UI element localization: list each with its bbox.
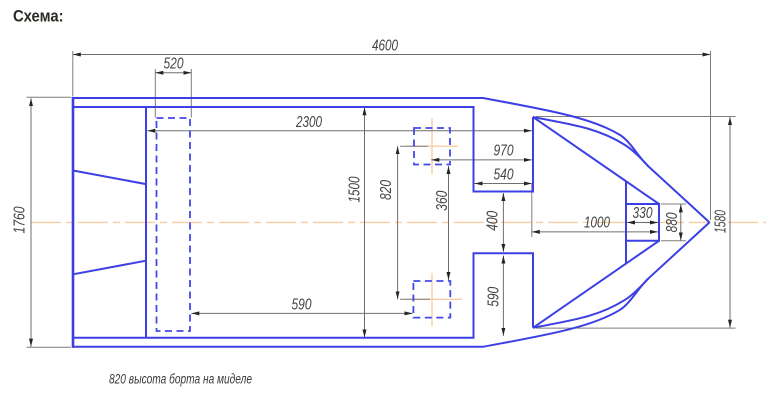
svg-text:540: 540 (494, 167, 514, 184)
fuel tank dashed rectangle (157, 118, 191, 331)
ext 1580 top (536, 116, 736, 118)
dimension extension lines (27, 51, 736, 347)
dim 590 horizontal line (191, 312, 412, 314)
transom diagonal lower (73, 261, 146, 275)
bow deck edge upper (533, 117, 659, 204)
dim 880 line (680, 204, 682, 240)
transom diagonal upper (73, 171, 146, 185)
dimension labels (12, 38, 730, 314)
svg-text:520: 520 (164, 56, 184, 73)
ext 1000 left (at bow notch wall) (531, 184, 533, 237)
dim 820 line (397, 146, 399, 299)
dim 400 line (502, 193, 504, 252)
ext 4600 right (710, 51, 712, 220)
hull outline (72, 97, 710, 348)
ext 880 top (661, 203, 686, 205)
dim 520 line (155, 72, 191, 74)
dim 4600 line (73, 54, 711, 56)
ext 1580 bottom (536, 327, 736, 329)
dashed structures (157, 118, 451, 331)
svg-text:590: 590 (486, 287, 503, 307)
ext 880 bottom (661, 240, 686, 242)
bow seat left edge (625, 181, 627, 263)
dim 360 line (448, 166, 450, 280)
svg-text:1760: 1760 (12, 206, 29, 233)
svg-text:820: 820 (378, 180, 395, 200)
svg-text:360: 360 (434, 190, 451, 210)
dim 1760 line (30, 98, 32, 346)
svg-text:970: 970 (494, 143, 514, 160)
hull left (transom) edge (72, 97, 75, 348)
svg-text:2300: 2300 (295, 114, 322, 131)
bow deck edge lower (533, 241, 659, 328)
hull outer top edge and bow curve (72, 98, 710, 222)
svg-text:4600: 4600 (372, 38, 398, 55)
svg-text:330: 330 (633, 205, 653, 222)
dimension lines with arrows (31, 55, 730, 347)
lower square centerlines (431, 273, 433, 326)
dim 1000 line (532, 231, 658, 233)
hull outer bottom edge and bow curve (72, 222, 710, 346)
dim 1500 line (364, 107, 366, 337)
svg-text:1500: 1500 (347, 176, 364, 202)
dim 1580 line (729, 117, 731, 328)
transom bulkhead (145, 107, 147, 338)
bow seat rectangle (626, 204, 659, 241)
bow inner sheer lower (533, 278, 649, 328)
svg-text:590: 590 (292, 297, 312, 314)
ext 4600 left (72, 51, 74, 97)
dim 540 line (475, 183, 532, 185)
ext 1760 top (27, 96, 72, 98)
ext 520 left (154, 69, 156, 118)
inner gunwale top with cockpit notch (74, 107, 533, 192)
ext 820 bottom (400, 298, 430, 300)
dim 590 vertical line (502, 256, 504, 336)
svg-text:820 высота борта на миделе: 820 высота борта на миделе (109, 372, 252, 387)
inner gunwale bottom with cockpit notch (74, 253, 533, 337)
dim 2300 line (147, 130, 532, 132)
svg-text:400: 400 (485, 211, 502, 231)
lower seat dashed square (413, 281, 450, 318)
upper square centerlines (406, 118, 462, 326)
svg-text:880: 880 (664, 212, 681, 232)
bow inner sheer upper (533, 117, 649, 167)
dim 330 line (627, 222, 658, 224)
svg-text:1000: 1000 (584, 215, 610, 232)
centerline (hull axis) (31, 221, 711, 223)
dim 970 line (431, 159, 532, 161)
ext 520 right (190, 69, 192, 118)
ext 820 top (400, 145, 428, 147)
svg-text:1580: 1580 (713, 210, 730, 233)
ext 1760 bottom (27, 346, 72, 348)
svg-text:Схема:: Схема: (13, 7, 64, 26)
upper seat dashed square (414, 128, 450, 165)
